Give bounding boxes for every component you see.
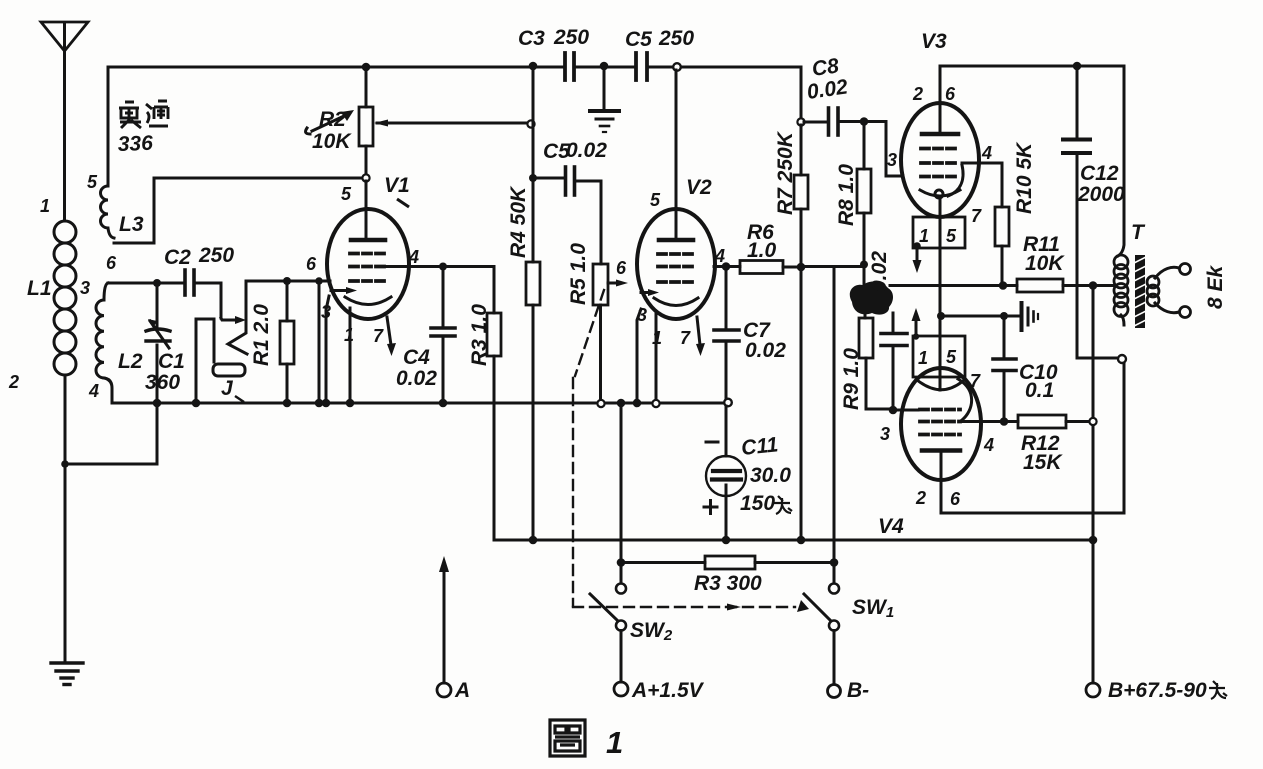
tube V2 grid stub arrow (608, 280, 628, 287)
capacitor C12 (1063, 66, 1117, 358)
jack J fixed contact (228, 281, 247, 354)
wire V2 pin5 lead to top bus (675, 70, 678, 238)
svg-text:L1: L1 (27, 277, 52, 300)
svg-text:6: 6 (616, 258, 627, 278)
node R3-300 left (617, 558, 626, 567)
wire V3 pin5 continue down to V4 (939, 316, 942, 390)
wire SW2 drop (620, 403, 623, 583)
wire V4 pin4 lead (960, 420, 1018, 423)
svg-text:250: 250 (198, 244, 234, 267)
svg-text:V3: V3 (921, 30, 947, 53)
resistor R2 (volume pot) (359, 67, 373, 175)
svg-text:2: 2 (915, 488, 926, 508)
wire antenna lead down (63, 51, 66, 221)
svg-text:1: 1 (918, 348, 928, 368)
svg-text:1: 1 (606, 725, 623, 760)
svg-text:8 Ek: 8 Ek (1204, 264, 1227, 309)
tube V3 plate bar (922, 132, 958, 137)
svg-text:4: 4 (408, 247, 419, 267)
node bus2 R4 (529, 536, 538, 545)
ground (between C3 and C5) (590, 67, 619, 132)
jack J frame and plug (196, 319, 245, 400)
svg-text:3: 3 (637, 305, 647, 325)
node V4 grid (889, 406, 898, 415)
tube V3 grid rows (921, 149, 959, 177)
node C1 top (153, 279, 161, 287)
wire V3 pin4 plate lead (962, 163, 1002, 207)
node bus1 SW2 (617, 399, 626, 408)
svg-text:30.0: 30.0 (750, 464, 791, 487)
node C4 top (439, 263, 447, 271)
tube V1 cathode (345, 297, 391, 305)
node C8 tap (open) (797, 118, 804, 125)
svg-text:R4 50K: R4 50K (507, 185, 530, 258)
node V2 plate feed junction (797, 263, 806, 272)
node V3 pin1 box corner (913, 242, 921, 250)
wire jog plate-node to R8 bottom (801, 265, 864, 268)
label 奥通 (brand) (119, 101, 168, 128)
wire R11 node down to R12 and B+ bus (1092, 286, 1095, 541)
tube V4 base box (913, 336, 965, 377)
node bus1 R1 (283, 399, 292, 408)
node bus2 B+ lead (1089, 536, 1098, 545)
resistor R7 (794, 125, 808, 267)
node bus1 V1 pin6 (315, 399, 324, 408)
terminal output bottom (1180, 307, 1191, 318)
svg-text:3: 3 (321, 302, 331, 322)
wire L1 bottom to ground (64, 375, 67, 662)
capacitor C7 (714, 267, 739, 401)
resistor R3 (487, 313, 501, 538)
node R11 right (1089, 281, 1098, 290)
wire V1 pin4 plate lead (386, 265, 443, 268)
svg-text:2: 2 (8, 372, 19, 392)
svg-text:5: 5 (87, 172, 98, 192)
wire V4 plate lead down (940, 452, 943, 513)
capacitor C9 (881, 313, 907, 410)
svg-text:R3 1.0: R3 1.0 (468, 304, 491, 366)
tube V4 plate bar (922, 448, 960, 453)
svg-text:R5 1.0: R5 1.0 (567, 243, 590, 305)
wire R8 bottom into blot node (863, 264, 866, 286)
node R8 bottom jog (860, 261, 868, 269)
wire plate node down to B bus (800, 267, 803, 540)
wire V1 pin5 down into tube (365, 181, 368, 238)
svg-text:C4: C4 (403, 346, 430, 369)
node C12 top on bus (1073, 62, 1082, 71)
resistor R3 300 (621, 556, 833, 569)
svg-text:10K: 10K (1025, 252, 1065, 275)
coil L1 (54, 221, 76, 375)
caption 圖 1 (550, 720, 585, 756)
node bus1 jack (192, 399, 201, 408)
node bus2 C11 (722, 536, 731, 545)
svg-text:6: 6 (306, 254, 317, 274)
svg-text:7: 7 (970, 371, 981, 391)
svg-text:0.02: 0.02 (396, 367, 437, 390)
capacitor C1 (variable) (146, 283, 170, 403)
svg-text:5: 5 (946, 347, 957, 367)
svg-text:0.02: 0.02 (868, 251, 891, 292)
tube V4 grid rows (920, 410, 960, 435)
capacitor C5 (636, 53, 647, 80)
node bus2 plate feed (797, 536, 806, 545)
wire bus-1 (filament/ground bus) (112, 402, 728, 405)
resistor R4 (526, 262, 540, 540)
wire top bus corner to R7 (800, 67, 803, 119)
svg-text:0.02: 0.02 (566, 139, 607, 162)
svg-text:4: 4 (981, 143, 992, 163)
svg-text:L2: L2 (118, 350, 143, 373)
svg-text:2: 2 (912, 84, 923, 104)
resistor R9 (859, 313, 893, 409)
terminal A (437, 556, 451, 697)
svg-text:V2: V2 (686, 176, 712, 199)
wire V2 pin1 cathode down (655, 312, 658, 403)
wire R2 wiper tap line to R4 line (377, 122, 528, 125)
svg-text:0.1: 0.1 (1025, 379, 1054, 402)
svg-text:7: 7 (680, 328, 691, 348)
wire plate-feed jog to SW1 line (833, 267, 836, 583)
svg-text:5: 5 (946, 226, 957, 246)
wire bus-2 (B+ bus) (494, 539, 1093, 542)
R2 wiper arrow (306, 110, 354, 134)
svg-text:L3: L3 (119, 213, 144, 236)
tube V4 cathode curve (917, 380, 963, 390)
svg-text:R7 250K: R7 250K (774, 130, 797, 215)
svg-text:1: 1 (919, 226, 929, 246)
wire V4 plate to transformer primary bottom (941, 362, 1124, 513)
svg-text:10K: 10K (312, 130, 352, 153)
svg-text:V1: V1 (384, 174, 410, 197)
svg-text:2000: 2000 (1077, 183, 1125, 206)
svg-text:R10 5K: R10 5K (1013, 141, 1036, 214)
wire C8 node to V3 grid pin3 (864, 122, 903, 177)
svg-text:R8 1.0: R8 1.0 (835, 164, 858, 226)
svg-text:1: 1 (40, 196, 50, 216)
svg-text:3: 3 (887, 150, 897, 170)
svg-text:R3 300: R3 300 (694, 572, 762, 595)
node C3-C5 ground tap on bus (600, 62, 609, 71)
svg-text:T: T (1131, 221, 1146, 244)
V4 pin1 up arrow (912, 308, 921, 340)
wire V1 pin4 to R3 (443, 267, 494, 314)
coil L2 (96, 300, 104, 378)
antenna (41, 22, 88, 51)
tube V2 cathode (654, 298, 698, 306)
tube V3 inner curve (948, 165, 963, 196)
tube V2 envelope (637, 209, 715, 319)
svg-text:R2: R2 (319, 108, 346, 131)
svg-text:360: 360 (145, 371, 180, 394)
svg-text:R1 2.0: R1 2.0 (250, 304, 273, 366)
capacitor C3 (565, 53, 574, 80)
capacitor C4 (431, 267, 455, 404)
wire V4 grid line into tube (893, 409, 918, 412)
wire top bus corner down to transformer (1118, 66, 1124, 256)
svg-text:4: 4 (983, 435, 994, 455)
switch SW2 (590, 584, 626, 683)
resistor R1 (280, 281, 294, 403)
capacitor C6 (533, 167, 601, 264)
node R10 bottom (999, 281, 1008, 290)
svg-text:J: J (221, 377, 234, 400)
transformer T core (1134, 255, 1146, 328)
svg-text:C2: C2 (164, 246, 191, 269)
wire secondary bottom lead (1155, 303, 1179, 313)
svg-text:C12: C12 (1080, 162, 1119, 185)
svg-text:7: 7 (373, 326, 384, 346)
node bus1 V2 pin3 (633, 399, 642, 408)
tube V2 inner grid arrow (641, 289, 659, 296)
wire V2 pin7 with arrow (696, 317, 705, 356)
svg-text:A: A (454, 679, 470, 702)
dashed link arrow at SW1 (797, 600, 809, 612)
node bus1 C11 (open) (724, 399, 732, 407)
tube V3 base box (913, 217, 965, 248)
svg-text:250: 250 (658, 27, 694, 50)
wire jog bus to antenna lead (65, 403, 157, 464)
wire L2 top lead (104, 283, 108, 300)
capacitor C8 (804, 108, 864, 135)
V3 pin1 down arrow (913, 246, 922, 273)
wire V2 pin3 down (637, 309, 641, 403)
svg-text:B+67.5-90: B+67.5-90 (1108, 679, 1207, 702)
tube V4 inner curve (958, 379, 972, 420)
svg-text:V4: V4 (878, 515, 904, 538)
wire R4 line top (532, 66, 535, 262)
svg-text:5: 5 (341, 184, 352, 204)
svg-text:0.02: 0.02 (745, 339, 786, 362)
svg-text:1: 1 (344, 325, 354, 345)
resistor R8 (857, 122, 871, 265)
resistor R12 (1018, 415, 1090, 428)
transformer T secondary winding (1147, 276, 1159, 306)
node C6 tap (529, 174, 537, 182)
wire V1 pin3 down (326, 296, 329, 403)
wire L2 bottom to bus (104, 378, 112, 403)
ink blot (C9 node) (850, 281, 893, 314)
wire V3 pin5 down through box (939, 198, 942, 316)
node R2 top on bus (362, 63, 371, 72)
node bus1 R5 (open) (597, 400, 604, 407)
node R1 top (283, 277, 291, 285)
svg-text:6: 6 (106, 253, 117, 273)
svg-text:5: 5 (650, 190, 661, 210)
wire V3 pin6 lead to top bus (939, 66, 942, 132)
node C10 top (1000, 312, 1008, 320)
resistor R11 (1017, 279, 1113, 292)
tube V1 plate bar (351, 238, 385, 243)
node bus1 V1 pin3 (322, 399, 331, 408)
svg-text:R9 1.0: R9 1.0 (840, 348, 863, 410)
capacitor C10 (993, 316, 1016, 421)
svg-text:C3: C3 (518, 27, 545, 50)
wire V1 pin1 cathode down (349, 308, 352, 403)
resistor R10 (995, 207, 1009, 285)
svg-text:A+1.5V: A+1.5V (631, 679, 705, 702)
svg-text:150: 150 (740, 492, 775, 515)
transformer T primary winding (1114, 255, 1128, 317)
node V1 pin5 / grid line (open) (362, 174, 369, 181)
tube V2 plate bar (659, 238, 693, 243)
node pin5 line (937, 312, 945, 320)
svg-text:C1: C1 (158, 350, 185, 373)
tube V3 cathode circle (935, 190, 943, 198)
tube V3 cathode (920, 190, 960, 196)
switch SW1 (804, 584, 839, 685)
wire C2 to jack arm (194, 283, 221, 318)
svg-text:250: 250 (553, 26, 589, 49)
node wiper line end (open) (527, 120, 534, 127)
tube V1 grid rows (350, 254, 386, 282)
wire V2 pin4 plate lead (714, 265, 740, 268)
node jog-antenna junction (61, 460, 69, 468)
terminal A+1.5V (614, 682, 628, 696)
svg-text:6: 6 (945, 84, 956, 104)
wire box left edge (top bus down to L3) (107, 68, 110, 186)
svg-text:15K: 15K (1023, 451, 1063, 474)
node V2 pin5 on bus (673, 63, 681, 71)
svg-text:7: 7 (971, 206, 982, 226)
wire primary bottom curve (1121, 315, 1124, 325)
wire V1 pin7 with arrow (387, 317, 396, 356)
node C8 out / R8 top (860, 117, 869, 126)
svg-text:B-: B- (847, 679, 869, 702)
svg-text:C11: C11 (740, 433, 779, 460)
svg-text:1.0: 1.0 (747, 239, 777, 262)
tube V3 envelope (901, 103, 979, 217)
node bus1 C1 (153, 399, 162, 408)
node C10 bottom (1000, 417, 1009, 426)
wire V3/V4 pin5 to ground stub (940, 315, 1004, 318)
node R3-300 right (830, 558, 839, 567)
node bus1 V1 pin1 (346, 399, 355, 408)
svg-text:4: 4 (714, 246, 725, 266)
terminal output top (1180, 264, 1191, 275)
wire secondary top lead (1155, 267, 1179, 278)
tube V1 grid arrow (331, 287, 357, 294)
resistor R5 (593, 264, 608, 403)
wire blot node to R10/R11 (890, 284, 1017, 287)
wire tuned line y283 L2 to C2 (108, 282, 183, 285)
resistor R6 (740, 261, 801, 274)
wire top bus segment 1 (108, 66, 563, 69)
svg-text:3: 3 (80, 278, 90, 298)
node V2 plate / C7 (722, 262, 731, 271)
wire y281 jack to V1 pin6 (246, 280, 330, 283)
dashed tuning gang link (573, 290, 795, 607)
node bus1 V2 pin1 (open) (652, 400, 659, 407)
jack J arm arrow (221, 318, 236, 320)
capacitor C11 electrolytic (704, 406, 746, 540)
wire L3 pin6 jog to V1 pin5 line (114, 178, 362, 243)
svg-text:1: 1 (652, 328, 662, 348)
node transformer primary bottom (open) (1118, 355, 1126, 363)
ground (V3 cathode line) (1004, 303, 1038, 330)
svg-text:6: 6 (950, 489, 961, 509)
svg-text:3: 3 (880, 424, 890, 444)
wire top bus segment 2 (940, 65, 1124, 68)
svg-text:336: 336 (117, 132, 153, 156)
node C3 left on bus (529, 62, 538, 71)
tube V1 envelope (327, 209, 409, 319)
wire V1 pin6 junction down (318, 281, 321, 403)
node bus1 C4 (439, 399, 448, 408)
svg-text:4: 4 (88, 381, 99, 401)
node R12 right (open) (1089, 418, 1096, 425)
coil L3 (101, 186, 114, 238)
terminal B+ (1086, 540, 1100, 697)
capacitor C2 (185, 270, 194, 295)
ground (antenna circuit) (51, 663, 83, 685)
dashed link mid arrow (727, 604, 741, 611)
tube V4 envelope (901, 368, 981, 480)
svg-text:C5: C5 (625, 28, 652, 51)
tube V2 grid rows (658, 254, 694, 282)
terminal B- (828, 685, 841, 698)
